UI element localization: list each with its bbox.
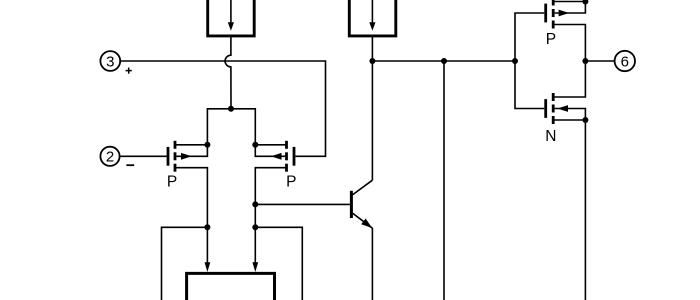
- transistor Q1 channel segments: [174, 141, 177, 172]
- transistor Q4 label P: [546, 31, 556, 48]
- transistor Q4 source terminal: [553, 1, 585, 3]
- transistor Q3 collector diagonal: [353, 180, 373, 194]
- transistor Q4 channel segments: [552, 0, 555, 29]
- transistor Q1 label P: [167, 174, 177, 191]
- minus label: [126, 164, 134, 166]
- current source I1 box: [208, 0, 255, 36]
- transistor Q5 bulk arrow: [555, 105, 586, 120]
- pin 2 terminal: [100, 147, 119, 166]
- current source I1 arrow: [228, 0, 234, 31]
- wire common source rail: [207, 109, 255, 145]
- node Q2 source junction: [252, 142, 258, 148]
- svg-text:P: P: [286, 174, 296, 191]
- wire Q1 drain into summing box with arrow: [205, 227, 211, 272]
- transistor Q5 drain terminal: [553, 61, 585, 97]
- transistor Q5 channel segments: [552, 93, 555, 124]
- node mid rail junction: [441, 58, 447, 64]
- wire output to pin 6: [585, 60, 614, 62]
- node tail junction: [228, 106, 234, 112]
- wire rail to gates node: [372, 60, 515, 62]
- plus label: [126, 68, 132, 74]
- transistor Q3 collector wire from I2 node: [371, 61, 373, 180]
- pin 6 terminal: [615, 51, 635, 71]
- transistor Q4 bulk arrow: [555, 2, 586, 17]
- svg-text:2: 2: [106, 149, 114, 166]
- transistor Q2 bulk arrow: [255, 145, 285, 160]
- wire pin2 to left gate: [120, 155, 167, 157]
- transistor Q4 P-channel output (gate bar): [544, 4, 547, 23]
- wire Q2 drain into summing box with arrow: [252, 227, 258, 272]
- current source I2 box: [349, 0, 396, 36]
- node Q1 source junction: [204, 142, 210, 148]
- svg-text:P: P: [167, 174, 177, 191]
- node output junction: [582, 58, 588, 64]
- pin 3 terminal: [100, 51, 120, 71]
- transistor Q2 drain terminal: [255, 168, 286, 228]
- wire I1 tail with hop over pin3 wire: [225, 36, 231, 109]
- transistor Q2 P-channel right (gate bar): [293, 147, 296, 166]
- transistor Q4 drain terminal: [553, 25, 585, 62]
- transistor Q5 N-channel output (gate bar): [544, 99, 547, 118]
- svg-text:N: N: [545, 128, 556, 145]
- node I2 rail junction: [369, 58, 375, 64]
- wire pin3 to right gate corner: [120, 61, 325, 156]
- node Q4 source junction: [582, 0, 588, 5]
- wire Q5 source down: [584, 120, 586, 300]
- node Q1 drain junction: [204, 224, 210, 230]
- transistor Q1 bulk arrow: [176, 145, 207, 160]
- node Q2 drain junction lower: [252, 224, 258, 230]
- transistor Q3 base wire: [255, 203, 350, 205]
- transistor Q5 source terminal: [553, 119, 585, 121]
- transistor Q1 drain terminal: [175, 168, 207, 228]
- transistor Q2 channel segments: [285, 141, 288, 172]
- transistor Q3 emitter diagonal with arrow: [353, 213, 373, 228]
- transistor Q2 label P: [286, 174, 296, 191]
- transistor Q1 P-channel left (gate bar): [167, 147, 170, 166]
- node Q5 source junction: [582, 117, 588, 123]
- transistor Q3 NPN base bar: [350, 191, 353, 218]
- node gate drive junction: [512, 58, 518, 64]
- current source I2 arrow: [369, 0, 375, 31]
- wire left drain to bottom rail: [162, 227, 208, 300]
- node Q2 drain junction upper: [252, 201, 258, 207]
- svg-text:6: 6: [621, 53, 629, 70]
- transistor Q5 label N: [545, 128, 556, 145]
- summing box: [187, 273, 275, 300]
- svg-text:P: P: [546, 31, 556, 48]
- wire gate drive to P gate: [515, 13, 544, 61]
- transistor Q1 source terminal: [175, 144, 207, 146]
- transistor Q3 emitter wire down: [371, 228, 373, 300]
- transistor Q2 source terminal: [255, 144, 286, 146]
- wire right drain to bottom rail: [255, 227, 302, 300]
- wire mid rail down: [443, 61, 445, 300]
- svg-text:3: 3: [106, 53, 114, 70]
- wire gate drive to N gate: [515, 61, 544, 109]
- wire I2 tail to output rail node: [371, 36, 373, 61]
